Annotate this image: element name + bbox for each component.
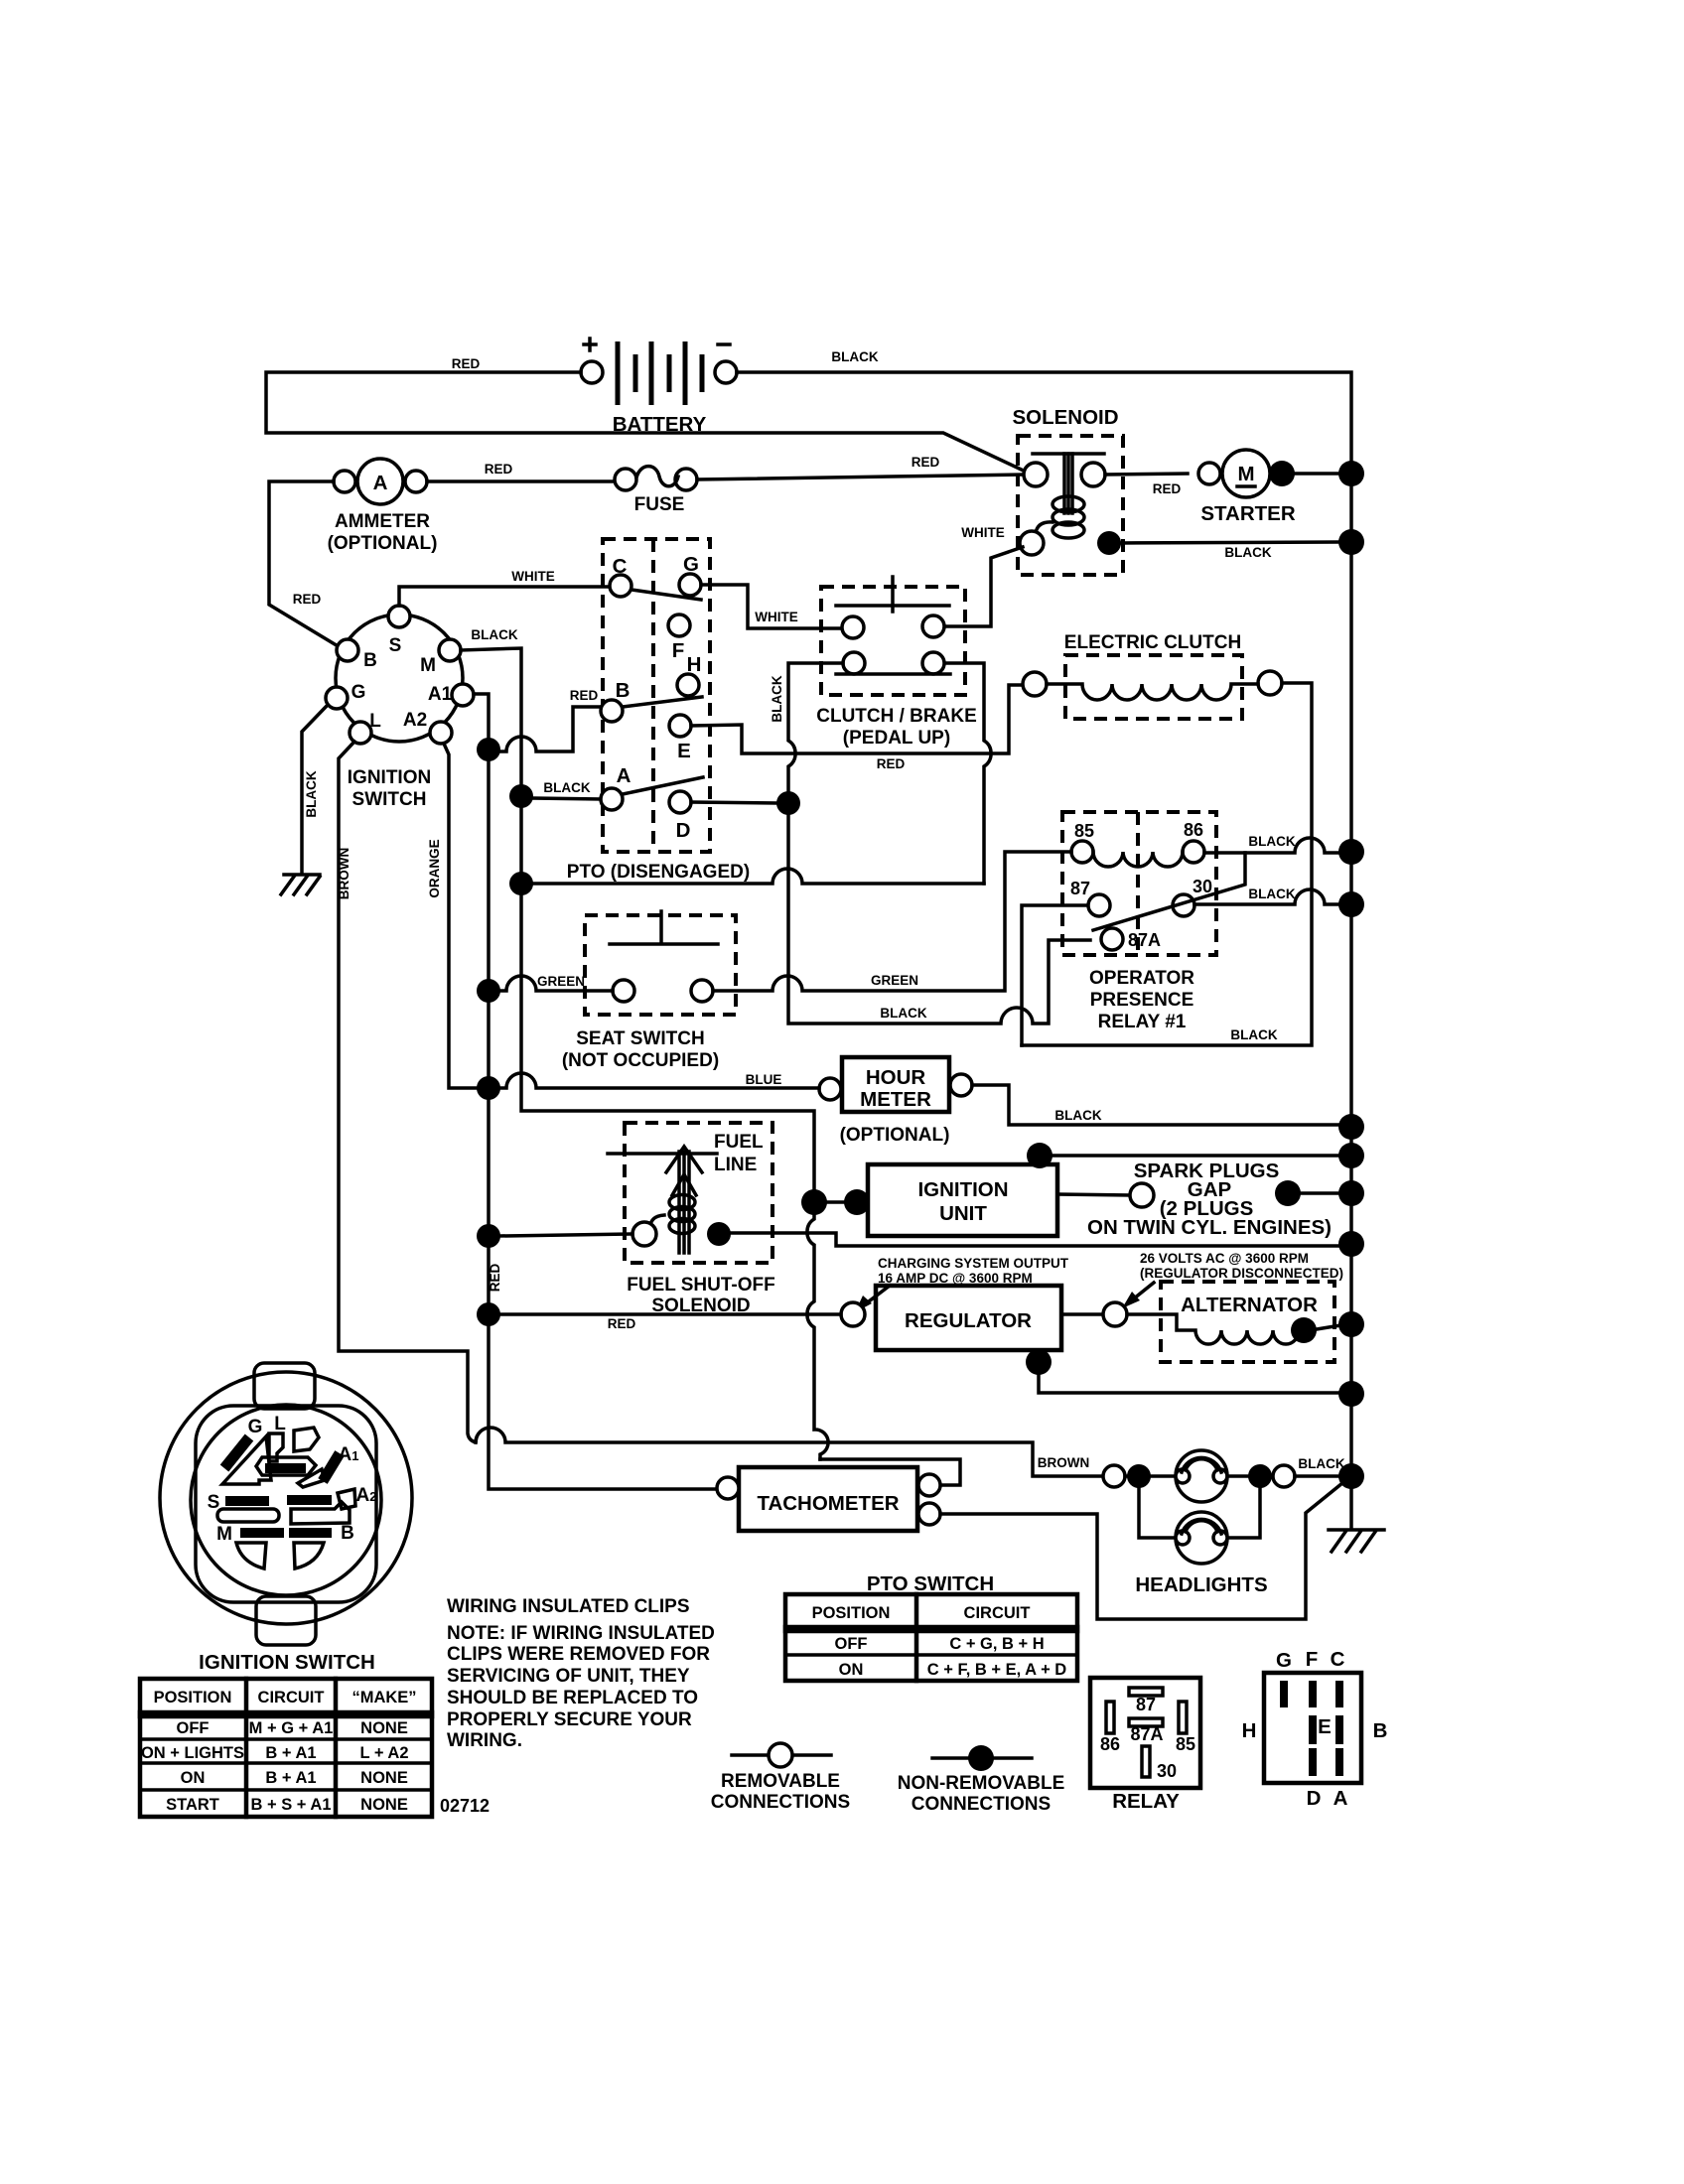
svg-text:CLIPS WERE REMOVED FOR: CLIPS WERE REMOVED FOR [447,1644,710,1665]
wire red feed to regulator [500,1312,841,1316]
svg-text:LINE: LINE [714,1155,757,1175]
junction dot bus headlights [1338,1463,1364,1489]
svg-text:B + A1: B + A1 [265,1744,316,1762]
svg-text:SERVICING OF UNIT, THEY: SERVICING OF UNIT, THEY [447,1666,690,1687]
svg-text:SEAT SWITCH: SEAT SWITCH [576,1028,704,1049]
relay terminal 85 [1071,841,1093,863]
svg-text:CHARGING SYSTEM OUTPUT: CHARGING SYSTEM OUTPUT [878,1256,1069,1271]
wire black clutch-brake left leg down to relay 87A [788,663,1090,1024]
svg-text:A1: A1 [428,684,453,705]
wire blue junction to hour meter with hop [500,1073,819,1088]
svg-text:85: 85 [1074,821,1094,841]
headlight return connector [1273,1465,1295,1487]
relay terminal 86 [1183,841,1204,863]
legend non-removable connections [898,1745,1065,1815]
tachometer terminal left [717,1477,739,1499]
wire red battery to left loop [266,372,1030,474]
ignition switch [326,606,474,810]
PTO terminal C [610,575,631,597]
wire black relay 86 to bus [1204,838,1338,853]
junction dot solenoid black output [1097,531,1121,555]
junction dot fuel solenoid right [707,1222,731,1246]
junction dot bus regulator [1338,1381,1364,1407]
svg-text:87: 87 [1136,1695,1156,1714]
charging system output note [855,1256,1069,1312]
connector pin G [1280,1681,1288,1707]
svg-text:RED: RED [570,688,599,703]
PTO terminal H [677,674,699,696]
connector pin A [1335,1748,1343,1776]
svg-text:M + G + A1: M + G + A1 [249,1719,334,1737]
headlight lamp 2 [1176,1512,1227,1564]
svg-text:RED: RED [608,1316,636,1331]
svg-text:HOUR: HOUR [866,1066,926,1089]
PTO terminal G [679,574,701,596]
svg-text:FUEL SHUT-OFF: FUEL SHUT-OFF [627,1275,775,1296]
svg-text:BLACK: BLACK [1248,887,1295,901]
headlights [1103,1450,1338,1596]
electric clutch terminal left [1023,672,1047,696]
svg-text:B + A1: B + A1 [265,1769,316,1787]
svg-text:S: S [389,635,402,656]
svg-text:BLUE: BLUE [746,1072,782,1087]
spark plugs gap [1057,1160,1338,1239]
hour meter terminal right [950,1074,972,1096]
svg-text:IGNITION: IGNITION [348,767,431,788]
svg-text:BLACK: BLACK [304,770,319,817]
junction dots ignition unit input [801,1189,827,1215]
alternator [1103,1251,1343,1362]
svg-text:SWITCH: SWITCH [352,789,427,810]
svg-text:L: L [274,1414,286,1434]
PTO switch blade B-H [623,697,702,707]
wire green feed to seat switch with hop [500,976,613,991]
svg-text:B: B [363,650,377,671]
svg-text:L + A2: L + A2 [359,1744,408,1762]
solenoid [1012,406,1123,575]
svg-text:WIRING.: WIRING. [447,1730,522,1751]
svg-text:ELECTRIC CLUTCH: ELECTRIC CLUTCH [1064,632,1241,653]
connector pin D [1309,1748,1317,1776]
svg-text:G: G [248,1417,263,1437]
PTO switch connector pinout [1242,1648,1388,1810]
wire ignition unit top to bus [1040,1156,1338,1164]
seat switch terminal right [691,980,713,1002]
svg-text:METER: METER [860,1088,931,1111]
junction dot bus ignition top [1338,1143,1364,1168]
svg-text:ON: ON [839,1661,864,1679]
ignition terminal M [439,639,461,661]
svg-text:RED: RED [293,592,322,607]
junction dot bus alternator [1338,1311,1364,1337]
ground symbol right [1329,1530,1384,1552]
svg-text:BLACK: BLACK [1224,545,1271,560]
junction dot bus 86 [1338,839,1364,865]
svg-text:A2: A2 [356,1485,377,1506]
svg-text:UNIT: UNIT [939,1202,987,1225]
svg-text:C + G, B + H: C + G, B + H [949,1635,1044,1653]
ground symbol left [281,875,320,894]
svg-text:RED: RED [912,455,940,470]
svg-text:PTO SWITCH: PTO SWITCH [867,1572,994,1595]
svg-text:AMMETER: AMMETER [335,511,430,532]
PTO terminal D [669,791,691,813]
svg-text:HEADLIGHTS: HEADLIGHTS [1135,1573,1267,1596]
svg-text:C + F, B + E, A + D: C + F, B + E, A + D [927,1661,1067,1679]
svg-text:START: START [166,1796,219,1814]
PTO terminal B [601,700,623,722]
fuse [615,467,697,515]
svg-text:E: E [677,740,691,762]
svg-text:C: C [1331,1648,1345,1671]
svg-text:BLACK: BLACK [880,1006,926,1021]
wire red fuse to solenoid [697,475,1024,479]
svg-text:NOTE: IF WIRING INSULATED: NOTE: IF WIRING INSULATED [447,1623,715,1644]
connector pin H [1309,1715,1317,1744]
svg-text:PTO (DISENGAGED): PTO (DISENGAGED) [567,862,750,883]
svg-text:NONE: NONE [360,1719,408,1737]
svg-text:D: D [1307,1787,1322,1810]
junction dot black M-A wire [509,784,533,808]
svg-text:B: B [616,679,631,702]
PTO switch blade A-D [623,777,703,794]
svg-text:87: 87 [1070,879,1090,898]
starter M [1198,450,1296,525]
svg-text:30: 30 [1157,1761,1177,1781]
clutch/brake (pedal up) [816,577,977,749]
relay terminal 87A [1101,928,1123,950]
wire M junction to clutch-brake right leg with hop [533,869,984,884]
svg-text:M: M [216,1524,232,1545]
junction dot bus fuel wire [1338,1231,1364,1257]
junction dot ignition unit top [1027,1143,1052,1168]
svg-text:85: 85 [1176,1734,1195,1754]
svg-text:BROWN: BROWN [337,848,351,900]
svg-text:GREEN: GREEN [537,974,585,989]
relay switch blade 30-87A [1093,853,1245,930]
svg-text:RED: RED [452,356,481,371]
connector pin E/B [1335,1715,1343,1744]
svg-text:RED: RED [485,462,513,477]
svg-text:BLACK: BLACK [770,675,784,722]
junction dot alternator coil [1291,1317,1317,1343]
wire brown ignition L down [339,742,476,1442]
junction dot bus hour meter [1338,1114,1364,1140]
svg-text:PROPERLY SECURE YOUR: PROPERLY SECURE YOUR [447,1709,692,1730]
svg-text:B: B [341,1523,354,1544]
electric clutch terminal right [1258,671,1282,695]
svg-text:(REGULATOR DISCONNECTED): (REGULATOR DISCONNECTED) [1140,1266,1343,1281]
alternator terminal [1103,1302,1127,1326]
seat switch (not occupied) [562,911,736,1071]
wire black junction to PTO A [533,798,601,799]
svg-text:PRESENCE: PRESENCE [1090,990,1194,1011]
wire black ignition G to ground [302,705,328,873]
spark plug gap electrode right [1275,1180,1301,1206]
junction dot M line lower [509,872,533,895]
svg-text:BLACK: BLACK [1230,1027,1277,1042]
svg-text:L: L [369,711,381,732]
wire red ammeter to fuse [427,479,615,483]
tachometer terminal upper-right [918,1474,940,1496]
svg-text:BROWN: BROWN [1038,1455,1090,1470]
svg-text:F: F [672,639,685,662]
svg-text:FUSE: FUSE [634,494,685,515]
wire regulator bottom to bus [1039,1350,1338,1393]
svg-text:GREEN: GREEN [871,973,918,988]
svg-text:CONNECTIONS: CONNECTIONS [912,1794,1051,1815]
wire black solenoid to bus [1121,542,1338,543]
relay coil 85-86 [1093,852,1183,867]
electric clutch coil [1047,684,1258,700]
svg-text:TACHOMETER: TACHOMETER [757,1492,899,1515]
svg-text:WIRING INSULATED CLIPS: WIRING INSULATED CLIPS [447,1596,690,1617]
hour meter terminal left [819,1078,841,1100]
connector pin F [1309,1681,1317,1707]
PTO terminal E [669,715,691,737]
electric clutch [1023,632,1282,719]
wire PTO D to clutch-brake left leg [691,802,776,803]
svg-text:IGNITION SWITCH: IGNITION SWITCH [199,1651,375,1674]
regulator [841,1286,1061,1350]
svg-text:M: M [1237,463,1254,485]
ignition terminal A2 [430,722,452,744]
relay pin slot 85 [1179,1702,1187,1733]
wire red feed to fuel solenoid [500,1234,632,1236]
svg-text:ON: ON [181,1769,206,1787]
wire red PTO E to electric clutch [691,685,1023,753]
ignition switch table [140,1679,432,1817]
fuel solenoid terminal left [632,1222,656,1246]
svg-text:(OPTIONAL): (OPTIONAL) [328,533,438,554]
legend removable connections [711,1743,850,1813]
svg-text:A: A [617,764,631,787]
junction dot headlight return [1248,1464,1272,1488]
ammeter A (optional) [328,459,438,554]
wire fuel solenoid to bus under ignition unit [731,1233,1338,1246]
svg-text:WHITE: WHITE [755,610,798,624]
wire red junction to PTO B with hop [489,707,601,751]
wire red solenoid to starter [1105,474,1188,475]
wire red ammeter left leg to ignition B [269,481,340,647]
wire black battery to right bus [737,372,1351,461]
tachometer [717,1467,940,1531]
svg-text:POSITION: POSITION [154,1689,232,1706]
svg-text:“MAKE”: “MAKE” [351,1689,416,1706]
PTO switch blade C-G [631,590,701,600]
svg-text:RELAY #1: RELAY #1 [1098,1012,1187,1032]
relay terminal 87 [1088,894,1110,916]
svg-text:SOLENOID: SOLENOID [1012,406,1118,429]
junction dot regulator feed [477,1302,500,1326]
spark plug gap electrode left [1130,1183,1154,1207]
junction dot fuel feed [477,1224,500,1248]
junction dot regulator bottom [1026,1349,1052,1375]
wire black relay 30 to bus [1194,889,1338,904]
svg-text:A2: A2 [403,710,427,731]
svg-text:BLACK: BLACK [1054,1108,1101,1123]
regulator terminal left [841,1302,865,1326]
battery [581,339,737,436]
headlight feed connector [1103,1465,1125,1487]
wire green seat switch to relay 85 with hop [713,852,1071,991]
svg-text:B: B [1373,1719,1388,1742]
wire black hour meter to bus [972,1085,1338,1125]
svg-text:CLUTCH / BRAKE: CLUTCH / BRAKE [816,706,977,727]
svg-text:86: 86 [1184,820,1203,840]
svg-text:H: H [1242,1719,1257,1742]
relay terminal 30 [1173,894,1194,916]
svg-text:S: S [208,1492,220,1513]
svg-text:02712: 02712 [440,1796,490,1816]
junction dot bus spark [1338,1180,1364,1206]
svg-text:SHOULD BE REPLACED TO: SHOULD BE REPLACED TO [447,1688,698,1708]
svg-text:BLACK: BLACK [831,349,878,364]
svg-text:NONE: NONE [360,1796,408,1814]
svg-text:B + S + A1: B + S + A1 [250,1796,331,1814]
svg-text:G: G [351,682,366,703]
wire right bus vertical [1349,474,1353,1528]
wiring insulated clips note [447,1596,715,1751]
wire relay 87 to electric clutch return [1022,905,1087,1045]
svg-text:WHITE: WHITE [961,525,1005,540]
ignition switch connector drawing [160,1363,412,1674]
clutch-brake terminal bottom-right [922,652,944,674]
svg-text:BLACK: BLACK [471,627,517,642]
operator presence relay #1 [1062,812,1245,1032]
wire red ignition A1 to junction [474,694,489,738]
svg-text:(PEDAL UP): (PEDAL UP) [843,728,950,749]
relay pinout drawing [1090,1678,1200,1813]
relay pin slot 86 [1106,1702,1114,1733]
svg-text:ON TWIN CYL. ENGINES): ON TWIN CYL. ENGINES) [1087,1216,1332,1239]
seat switch terminal left [613,980,634,1002]
svg-text:ORANGE: ORANGE [427,839,442,897]
wire red vertical feed [489,750,717,1489]
ignition terminal G [326,687,348,709]
wire tachometer lower to bus [940,1483,1342,1619]
wire regulator to alternator [1061,1312,1103,1316]
svg-text:REGULATOR: REGULATOR [905,1309,1032,1332]
svg-text:FUEL: FUEL [714,1132,764,1153]
junction dot D wire [776,791,800,815]
junction dot headlight feed [1127,1464,1151,1488]
svg-text:ALTERNATOR: ALTERNATOR [1181,1294,1318,1316]
svg-text:POSITION: POSITION [812,1604,891,1622]
clutch-brake terminal bottom-left [843,652,865,674]
svg-text:OFF: OFF [835,1635,868,1653]
svg-text:CONNECTIONS: CONNECTIONS [711,1792,850,1813]
svg-text:F: F [1306,1648,1319,1671]
svg-text:ON + LIGHTS: ON + LIGHTS [141,1744,244,1762]
PTO terminal F [668,614,690,636]
svg-text:RELAY: RELAY [1112,1790,1180,1813]
ignition terminal L [350,722,371,744]
svg-text:OPERATOR: OPERATOR [1089,968,1194,989]
ignition terminal A1 [452,684,474,706]
svg-text:NONE: NONE [360,1769,408,1787]
PTO terminal A [601,788,623,810]
ignition terminal B [337,639,358,661]
svg-text:(OPTIONAL): (OPTIONAL) [840,1125,950,1146]
svg-text:BLACK: BLACK [543,780,590,795]
svg-text:NON-REMOVABLE: NON-REMOVABLE [898,1773,1065,1794]
wire black ignition M down to ignition unit and tachometer [461,648,828,1459]
svg-text:OFF: OFF [177,1719,210,1737]
relay pin slot 30 [1142,1746,1150,1777]
wire white PTO G to clutch-brake [701,585,841,628]
svg-text:26 VOLTS AC @ 3600 RPM: 26 VOLTS AC @ 3600 RPM [1140,1251,1309,1266]
junction dot blue-orange-red [477,1076,500,1100]
svg-text:RED: RED [488,1264,502,1293]
wire starter to bus [1293,472,1338,476]
wire white solenoid to clutch-brake [945,547,1023,626]
svg-text:RED: RED [877,756,906,771]
svg-text:A: A [373,472,388,494]
svg-text:H: H [687,653,702,676]
svg-text:STARTER: STARTER [1200,502,1295,525]
svg-text:A1: A1 [339,1444,359,1465]
svg-text:REMOVABLE: REMOVABLE [721,1771,840,1792]
relay pin slot 87A [1129,1718,1163,1726]
svg-text:A: A [1333,1787,1348,1810]
relay pin slot 87 [1129,1688,1163,1696]
wire white ignition S to PTO C [399,587,610,606]
svg-text:CIRCUIT: CIRCUIT [258,1689,325,1706]
PTO switch (disengaged) [601,539,710,852]
svg-text:87A: 87A [1128,930,1161,950]
junction dot bus starter [1338,461,1364,486]
svg-text:C: C [613,555,628,578]
connector pin C [1335,1681,1343,1707]
clutch-brake terminal top-right [922,615,944,637]
wire clutch-brake right leg down [945,663,991,884]
svg-text:E: E [1318,1715,1332,1738]
junction dot bus 30 [1338,891,1364,917]
svg-text:IGNITION: IGNITION [917,1178,1008,1201]
svg-text:BLACK: BLACK [1248,834,1295,849]
svg-text:G: G [683,553,699,576]
svg-text:CIRCUIT: CIRCUIT [964,1604,1031,1622]
PTO switch table [785,1572,1077,1681]
junction dot green seat feed [477,979,500,1003]
headlight lamp 1 [1176,1450,1227,1502]
svg-text:WHITE: WHITE [511,569,555,584]
ignition terminal S [388,606,410,627]
junction dot A1 red [477,738,500,761]
wire orange ignition A2 down [444,744,477,1088]
svg-text:86: 86 [1100,1734,1120,1754]
ignition unit [868,1164,1057,1236]
svg-text:D: D [676,819,691,842]
junction dot bus solenoid black [1338,529,1364,555]
svg-text:M: M [420,655,436,676]
svg-text:(NOT OCCUPIED): (NOT OCCUPIED) [562,1050,719,1071]
svg-text:RED: RED [1153,481,1182,496]
svg-text:G: G [1276,1649,1292,1672]
wire electric clutch right to relay 87 line [1022,683,1312,1045]
svg-text:BLACK: BLACK [1298,1456,1344,1471]
wire brown hop over red vertical to headlights [476,1428,1102,1476]
tachometer terminal lower-right [918,1503,940,1525]
clutch-brake terminal top-left [842,616,864,638]
fuel line / fuel shut-off solenoid [608,1123,775,1316]
hour meter (optional) [819,1057,972,1146]
svg-text:87A: 87A [1130,1724,1163,1744]
